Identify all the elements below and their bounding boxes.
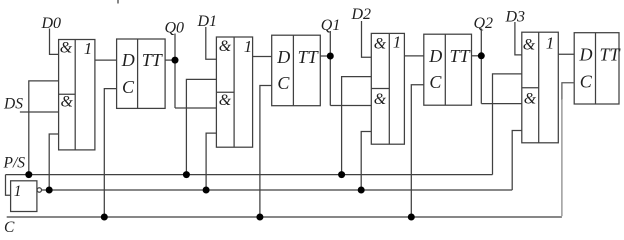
wire Q1 vertical <box>329 31 331 106</box>
svg-text:Q0: Q0 <box>165 20 185 37</box>
wire D3 to AND4a <box>515 22 522 55</box>
inverter U1 bubble <box>37 188 41 192</box>
svg-text:&: & <box>60 39 73 56</box>
AND-OR block stage1 <box>59 40 95 150</box>
svg-text:C: C <box>429 72 442 92</box>
divider AND cells stage1 <box>59 93 76 95</box>
svg-text:TT: TT <box>450 46 472 66</box>
svg-text:1: 1 <box>14 183 22 200</box>
svg-text:TT: TT <box>298 47 320 67</box>
inverter U1 box <box>11 181 37 212</box>
svg-text:TT: TT <box>142 50 164 70</box>
node Q2 junction <box>478 52 485 59</box>
svg-text:Q2: Q2 <box>474 15 494 32</box>
svg-text:D0: D0 <box>41 15 62 32</box>
wire OR1 to FF1 D <box>95 59 117 61</box>
svg-text:TT: TT <box>600 45 622 65</box>
wire NOT riser stage2 <box>206 133 216 190</box>
wire Q2 vertical <box>480 29 482 104</box>
bus NOT horizontal <box>42 189 513 191</box>
wire Q0 to AND2b <box>175 107 216 109</box>
AND-OR block stage2 <box>216 37 252 147</box>
AND-OR block stage3 <box>371 33 404 144</box>
wire P/S bus to inverter <box>6 175 11 196</box>
flip-flop FF4 box <box>574 33 619 104</box>
node NOT dot stage1 <box>46 187 53 194</box>
node P/S dot stage3 <box>338 171 345 178</box>
node NOT dot stage3 <box>358 187 365 194</box>
wire P/S riser stage3 <box>342 77 372 175</box>
svg-text:C: C <box>122 77 135 97</box>
divider AND cells stage2 <box>216 91 234 93</box>
svg-text:1: 1 <box>84 39 93 58</box>
FF4 divider <box>595 33 597 104</box>
wire P/S riser stage1 <box>29 81 59 175</box>
FF1 divider <box>137 39 139 108</box>
AND-OR block stage4 <box>522 32 559 143</box>
FF3 divider <box>444 34 446 105</box>
wire C riser FF3 <box>411 85 424 217</box>
divider columns stage2 <box>233 37 235 147</box>
FF2 divider <box>292 35 294 106</box>
wire C entry FF4 <box>562 83 574 100</box>
svg-text:C: C <box>4 219 15 234</box>
wire FF3 Q output <box>472 55 482 57</box>
divider AND cells stage4 <box>522 87 539 89</box>
wire P/S bus upturn stage4 <box>493 74 522 175</box>
wire NOT riser stage1 <box>49 134 58 190</box>
svg-text:D: D <box>579 45 593 65</box>
wire D0 to AND1a <box>50 29 59 55</box>
node Q1 junction <box>327 53 334 60</box>
node Q0 junction <box>172 57 179 64</box>
wire OR4 to FF4 D <box>558 53 574 55</box>
svg-text:D2: D2 <box>351 6 372 23</box>
flip-flop FF1 box <box>117 39 166 108</box>
wire Q2 to AND4b <box>481 103 522 105</box>
wire D2 to AND3a <box>362 21 372 57</box>
wire D1 to AND2a <box>206 27 217 59</box>
svg-text:P/S: P/S <box>3 154 26 171</box>
divider columns stage1 <box>74 40 76 150</box>
svg-text:D: D <box>428 46 442 66</box>
node P/S dot stage1 <box>25 171 32 178</box>
wire DS input <box>20 111 59 113</box>
svg-text:C: C <box>277 73 290 93</box>
svg-text:1: 1 <box>546 34 555 53</box>
node C dot FF1 <box>101 214 108 221</box>
svg-text:&: & <box>374 35 387 52</box>
wire FF2 Q output <box>320 55 330 57</box>
wire C riser FF2 <box>260 86 272 218</box>
svg-text:DS: DS <box>3 95 23 112</box>
svg-text:&: & <box>524 91 537 108</box>
flip-flop FF3 box <box>424 34 472 105</box>
wire Q0 vertical <box>174 34 176 109</box>
divider columns stage4 <box>538 32 540 143</box>
wire C riser FF1 <box>104 89 116 217</box>
divider columns stage3 <box>388 33 390 144</box>
flip-flop FF2 box <box>272 35 321 106</box>
svg-text:1: 1 <box>393 33 402 52</box>
wire Q1 to AND3b <box>330 105 371 107</box>
stray tick top <box>117 0 119 4</box>
svg-text:&: & <box>219 92 232 109</box>
wire OR3 to FF3 D <box>404 55 423 57</box>
node NOT dot stage2 <box>203 187 210 194</box>
svg-text:D: D <box>121 50 135 70</box>
svg-text:&: & <box>219 38 232 55</box>
wire NOT bus upturn stage4 <box>512 131 522 191</box>
wire NOT riser stage3 <box>361 132 371 191</box>
node P/S dot stage2 <box>183 171 190 178</box>
wire OR2 to FF2 D <box>253 56 272 58</box>
wire C bus upturn FF4 <box>561 99 563 216</box>
svg-text:&: & <box>60 93 73 110</box>
svg-text:&: & <box>523 36 536 53</box>
node C dot FF3 <box>408 214 415 221</box>
svg-text:D: D <box>276 47 290 67</box>
divider AND cells stage3 <box>371 88 389 90</box>
svg-text:&: & <box>374 91 387 108</box>
wire FF1 Q output <box>165 59 175 61</box>
bus P/S horizontal <box>6 174 493 176</box>
wire P/S riser stage2 <box>186 79 216 174</box>
svg-text:1: 1 <box>244 37 253 56</box>
svg-text:D1: D1 <box>197 13 218 30</box>
svg-text:C: C <box>580 71 593 91</box>
bus C clock horizontal <box>7 216 562 218</box>
node C dot FF2 <box>256 214 263 221</box>
